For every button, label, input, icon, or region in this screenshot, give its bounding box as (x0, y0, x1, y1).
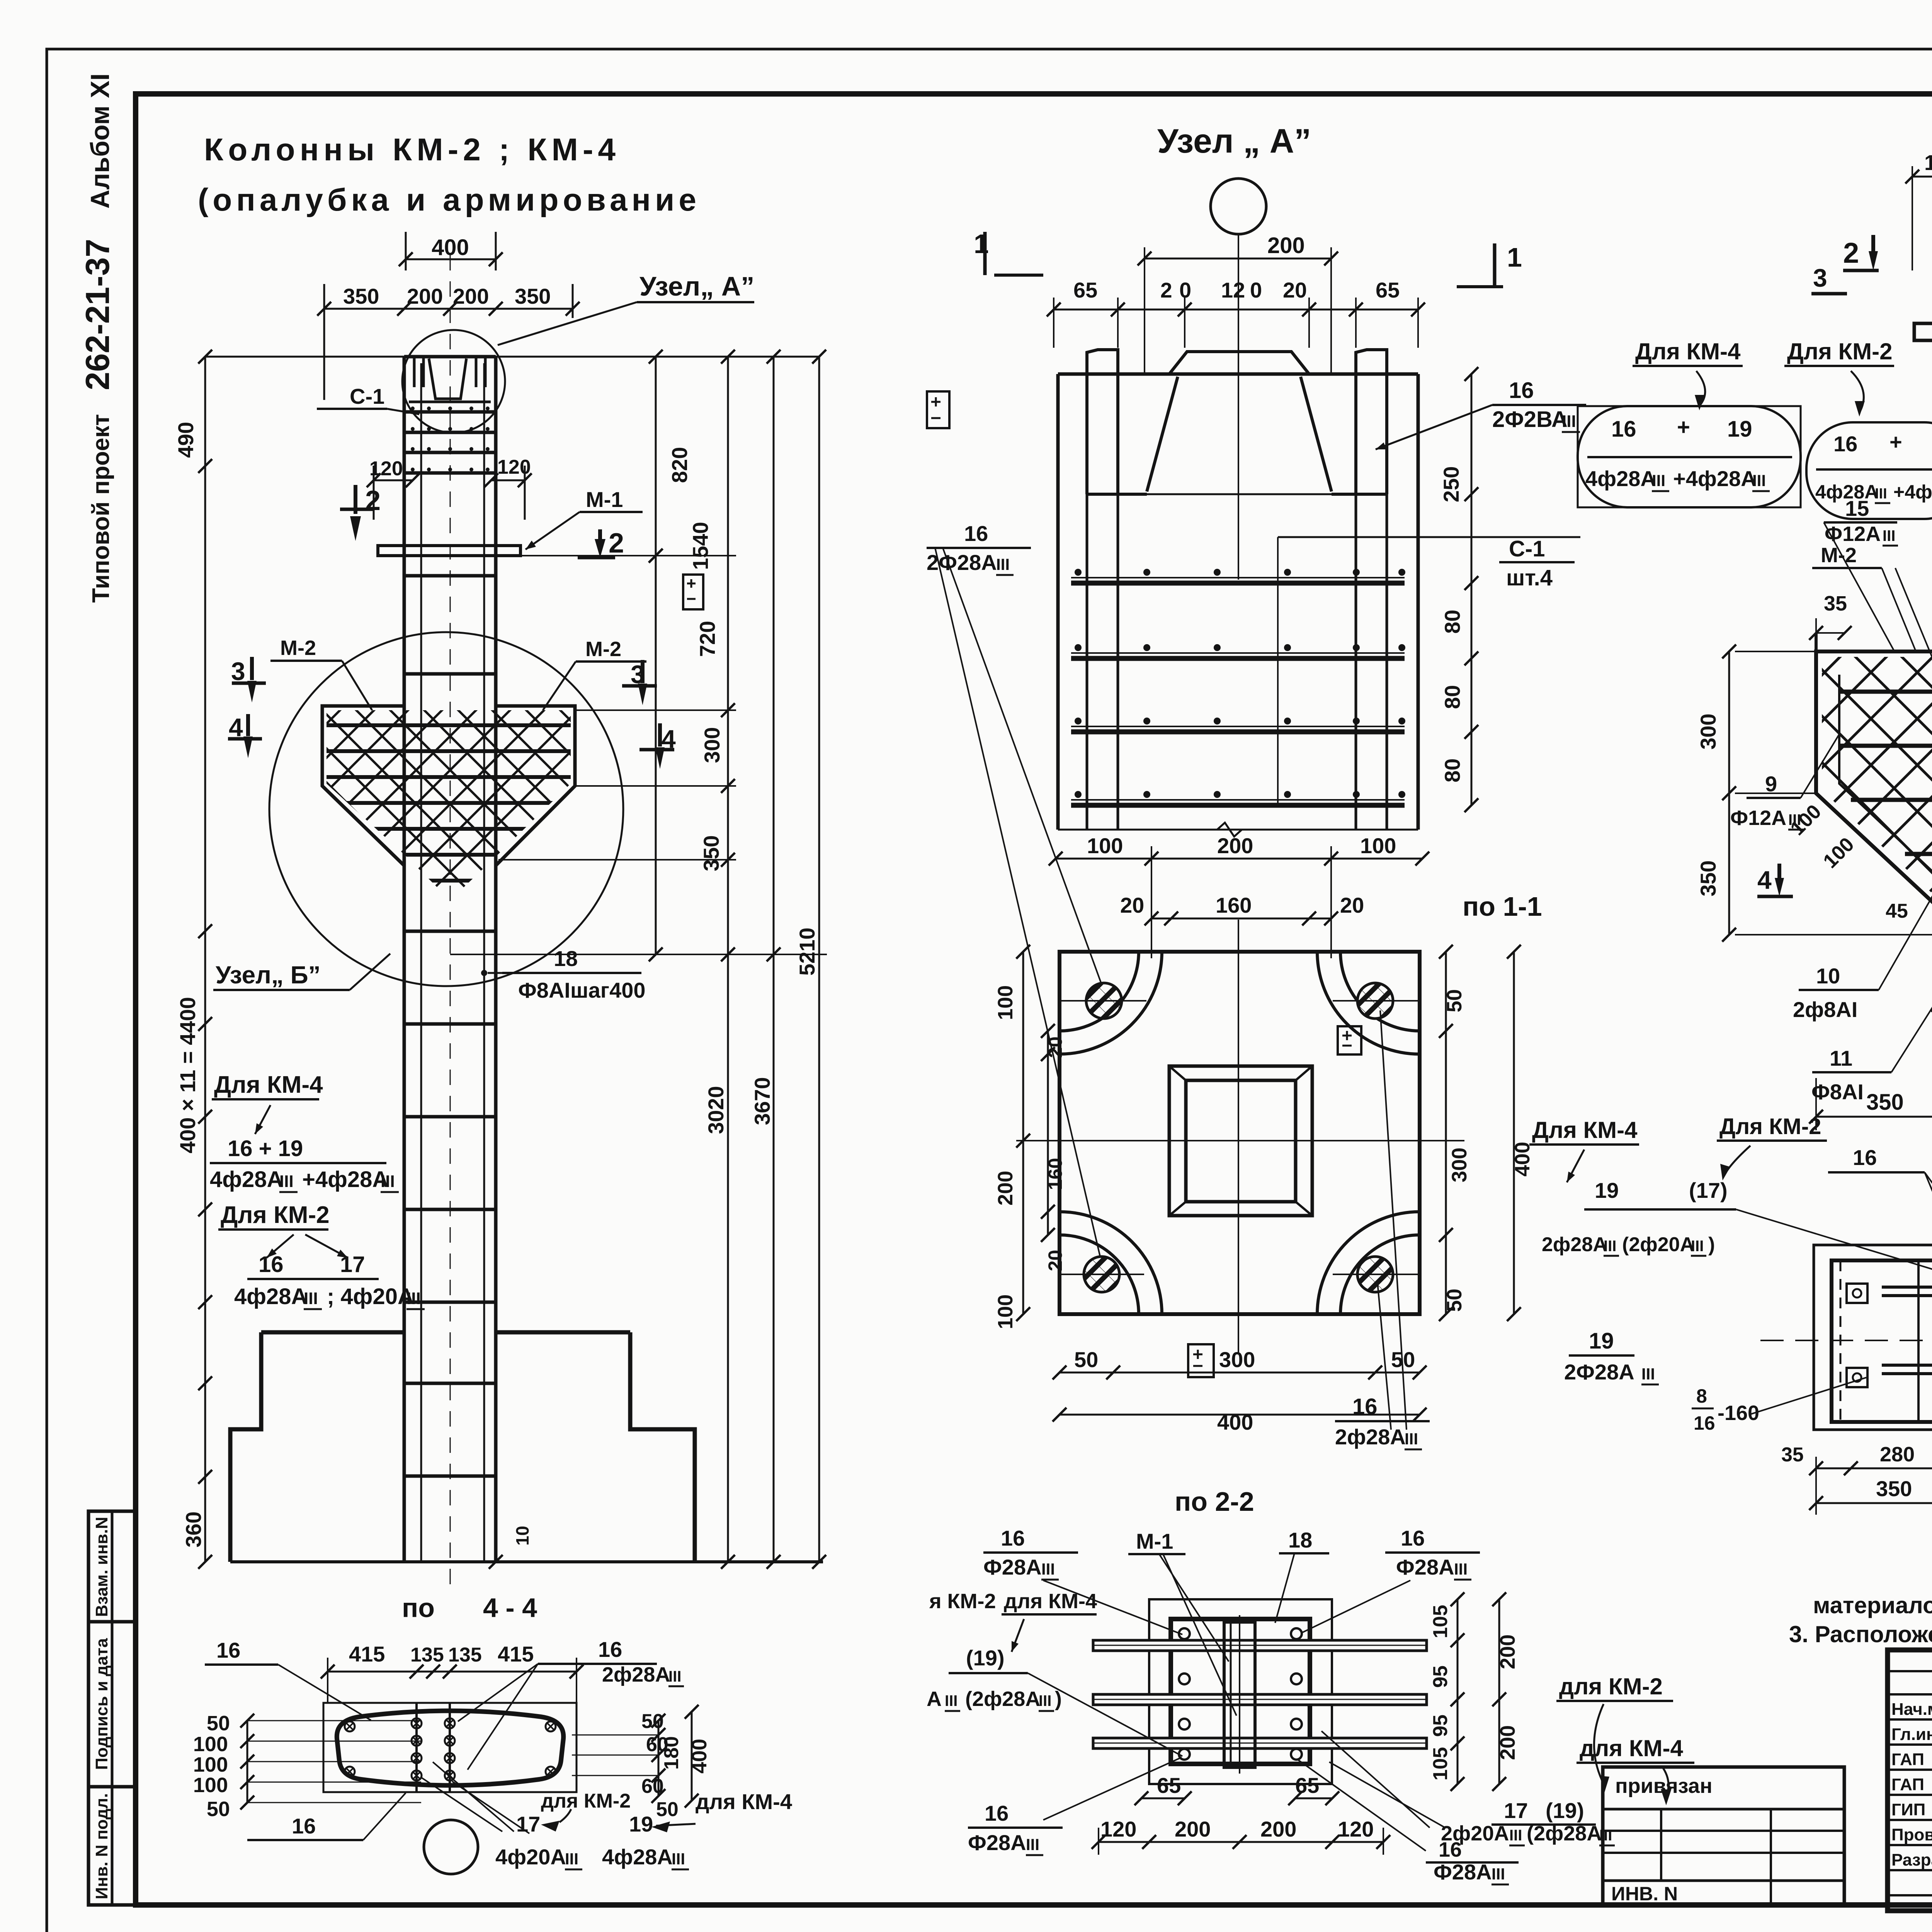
svg-text:490: 490 (173, 422, 198, 458)
svg-text:для КМ-2: для КМ-2 (1559, 1673, 1663, 1699)
svg-text:16: 16 (259, 1252, 284, 1277)
svg-text:III: III (1039, 1692, 1051, 1709)
uzel A circle (left) (402, 330, 505, 433)
label C-1 sht.4 (1278, 536, 1580, 538)
top cap profile (404, 355, 496, 359)
svg-text:шт.4: шт.4 (1506, 565, 1553, 590)
shaft rebar verticals (1086, 494, 1088, 830)
svg-text:III: III (668, 1668, 681, 1685)
section mark 3 (left, uzelB) (1811, 292, 1847, 296)
svg-text:200: 200 (1496, 1634, 1519, 1669)
column longitudinal rebar (420, 363, 422, 1562)
svg-text:200: 200 (1260, 1817, 1296, 1841)
svg-text:120: 120 (1100, 1817, 1136, 1841)
svg-text:50: 50 (656, 1798, 679, 1821)
bottom dims 350 200 200 350 (uzelB) (1816, 1116, 1932, 1118)
po33 outer rect (1814, 1245, 1932, 1430)
title block rows (left part) (1888, 1670, 1932, 1672)
svg-text:III: III (1875, 486, 1887, 502)
svg-text:(19): (19) (966, 1646, 1005, 1670)
svg-text:Ф12А: Ф12А (1730, 806, 1786, 830)
svg-text:Ф8АI: Ф8АI (1811, 1080, 1864, 1104)
svg-text:35: 35 (1781, 1444, 1804, 1466)
svg-text:250: 250 (1439, 466, 1463, 502)
svg-text:2ф28А: 2ф28А (1542, 1233, 1607, 1256)
svg-text:100: 100 (1360, 833, 1396, 858)
column shaft outer edges (403, 357, 406, 1562)
dim 400 top (406, 259, 496, 260)
svg-text:Для КМ-4: Для КМ-4 (214, 1071, 323, 1098)
svg-text:Для КМ-2: Для КМ-2 (1787, 338, 1893, 364)
svg-text:М-2: М-2 (280, 636, 316, 660)
svg-text:+4ф28А: +4ф28А (1673, 466, 1757, 491)
top dims 100 200 100 (1056, 858, 1422, 860)
svg-text:Инв. N подл.: Инв. N подл. (92, 1793, 111, 1900)
svg-text:1540: 1540 (688, 522, 713, 570)
svg-text:820: 820 (667, 447, 692, 483)
formwork cap profile (1087, 350, 1118, 374)
svg-text:3: 3 (231, 657, 245, 685)
svg-text:350: 350 (515, 284, 551, 308)
svg-text:3. Расположение колонн на план: 3. Расположение колонн на плане см. на ч… (1789, 1621, 1932, 1647)
svg-text:135: 135 (410, 1644, 444, 1666)
svg-text:Подпись и дата: Подпись и дата (92, 1638, 111, 1770)
corner rebar circles (1179, 1628, 1190, 1639)
right dim line (1471, 374, 1473, 805)
rebar circles po44 (412, 1718, 422, 1728)
svg-text:+: + (1889, 430, 1902, 454)
svg-text:20: 20 (1044, 1036, 1066, 1058)
left dim line (overall) (204, 357, 206, 1562)
svg-text:18: 18 (554, 946, 578, 971)
svg-text:Нач.мост.: Нач.мост. (1891, 1700, 1932, 1719)
uzel B capital (left fig) (322, 706, 404, 866)
svg-text:3: 3 (631, 660, 645, 689)
section mark 2 right (578, 556, 615, 560)
svg-text:+4ф28А: +4ф28А (302, 1167, 388, 1192)
svg-text:3670: 3670 (750, 1077, 774, 1125)
svg-text:350: 350 (343, 284, 379, 308)
capital inner offset (1839, 675, 1932, 912)
svg-text:я КМ-2: я КМ-2 (929, 1590, 996, 1613)
svg-text:III: III (945, 1692, 957, 1709)
svg-text:Ф28А: Ф28А (1396, 1555, 1454, 1579)
svg-text:III: III (1041, 1560, 1055, 1578)
column axis centerline (450, 255, 451, 1592)
svg-text:1: 1 (1507, 242, 1522, 272)
po33 middle bars (1882, 1286, 1932, 1289)
privyazan table (1603, 1767, 1844, 1904)
svg-text:4: 4 (662, 724, 676, 753)
svg-text:400: 400 (1511, 1142, 1534, 1177)
svg-text:17: 17 (340, 1252, 365, 1277)
svg-text:Узел„ А”: Узел„ А” (639, 271, 754, 301)
svg-text:12: 12 (1221, 278, 1245, 302)
svg-text:Альбом XI: Альбом XI (85, 73, 115, 209)
svg-text:50: 50 (641, 1710, 664, 1733)
svg-text:200: 200 (1267, 233, 1305, 258)
svg-text:(опалубка и армирование: (опалубка и армирование (198, 182, 696, 218)
svg-text:4ф28А: 4ф28А (602, 1845, 673, 1869)
svg-text:200: 200 (407, 284, 443, 308)
svg-text:4ф28А: 4ф28А (1585, 466, 1656, 491)
top dims 415 135 135 415 (328, 1671, 577, 1673)
svg-text:11: 11 (1830, 1046, 1852, 1070)
section mark 4 right (639, 748, 674, 752)
svg-text:III: III (1641, 1365, 1655, 1383)
svg-text:4: 4 (229, 713, 243, 742)
svg-text:19: 19 (1589, 1328, 1614, 1354)
section mark 4 left (228, 737, 262, 741)
svg-text:III: III (1454, 1560, 1468, 1578)
shaft stirrups (404, 574, 496, 578)
svg-text:III: III (1405, 1430, 1418, 1448)
svg-text:М-2: М-2 (1821, 544, 1857, 567)
svg-text:ГИП: ГИП (1891, 1800, 1925, 1819)
svg-text:16: 16 (1001, 1526, 1025, 1550)
svg-text:350: 350 (1876, 1476, 1912, 1501)
svg-text:20: 20 (1120, 893, 1144, 917)
svg-text:100: 100 (193, 1753, 228, 1776)
svg-text:3: 3 (1813, 264, 1827, 292)
svg-text:120: 120 (1338, 1817, 1374, 1841)
svg-text:для КМ-2: для КМ-2 (541, 1790, 631, 1812)
svg-text:(2ф20А: (2ф20А (1622, 1233, 1694, 1256)
svg-text:400: 400 (432, 235, 469, 260)
svg-text:(2ф28А: (2ф28А (1527, 1822, 1602, 1845)
svg-text:): ) (1708, 1233, 1715, 1256)
svg-text:10: 10 (512, 1526, 532, 1546)
svg-text:): ) (1055, 1687, 1062, 1711)
po33 bottom dims row1 (1816, 1468, 1932, 1469)
corner fillet arcs BL (1060, 1235, 1139, 1314)
svg-text:для КМ-4: для КМ-4 (1580, 1735, 1683, 1761)
svg-text:М-1: М-1 (1136, 1529, 1173, 1553)
svg-text:105: 105 (1429, 1747, 1452, 1781)
svg-text:Ф8АIшаг400: Ф8АIшаг400 (518, 978, 646, 1002)
svg-text:2Ф2ВА: 2Ф2ВА (1492, 407, 1568, 432)
svg-text:65: 65 (1073, 278, 1097, 302)
plusminus box near uzelA (927, 391, 949, 428)
svg-text:Разраб: Разраб (1891, 1850, 1932, 1869)
svg-text:65: 65 (1157, 1773, 1181, 1798)
svg-text:16: 16 (292, 1814, 316, 1838)
svg-text:III: III (1691, 1238, 1704, 1255)
dim 200 (top) (1145, 258, 1331, 260)
central plate (1224, 1622, 1255, 1767)
svg-text:135: 135 (448, 1644, 482, 1666)
svg-text:19: 19 (1727, 417, 1752, 442)
M-1 embed plate (378, 546, 520, 556)
dim 350 200 200 350 (324, 308, 573, 310)
svg-text:300: 300 (1696, 714, 1720, 750)
M-1 plate (uzelB) (1914, 323, 1932, 340)
C-1 mesh rows (406, 410, 495, 414)
svg-text:50: 50 (1443, 989, 1466, 1012)
svg-text:Узел„ Б”: Узел„ Б” (216, 961, 321, 989)
svg-text:2: 2 (1843, 237, 1859, 269)
svg-text:120: 120 (1924, 150, 1932, 175)
left dims (1022, 952, 1024, 1314)
svg-text:350: 350 (1696, 861, 1720, 896)
bottom dims 120 200 200 120 (1099, 1841, 1383, 1843)
svg-text:18: 18 (1288, 1528, 1312, 1552)
svg-text:III: III (672, 1850, 685, 1868)
svg-text:16: 16 (1509, 378, 1534, 403)
svg-text:(19): (19) (1546, 1798, 1584, 1823)
svg-text:16: 16 (1439, 1838, 1462, 1861)
outer square (1060, 952, 1420, 1314)
left dim stack 50 100 100 100 50 (247, 1721, 248, 1803)
svg-text:III: III (279, 1172, 294, 1191)
rebar rows with dots (1071, 581, 1405, 586)
svg-text:15: 15 (1845, 496, 1869, 520)
svg-text:16: 16 (598, 1637, 622, 1662)
svg-text:III: III (996, 555, 1010, 573)
svg-text:100: 100 (994, 1294, 1017, 1329)
svg-text:М-2: М-2 (585, 638, 621, 661)
svg-text:ГАП: ГАП (1891, 1775, 1924, 1794)
svg-text:Гл.инж.м: Гл.инж.м (1891, 1725, 1932, 1744)
svg-text:20: 20 (1283, 278, 1307, 302)
svg-text:Типовой проект: Типовой проект (88, 414, 114, 603)
svg-text:ГАП: ГАП (1891, 1750, 1924, 1769)
svg-text:(17): (17) (1689, 1178, 1728, 1202)
svg-text:+: + (1677, 415, 1690, 440)
marker circle po44 (424, 1820, 478, 1874)
svg-text:Ф28А: Ф28А (1434, 1860, 1492, 1884)
svg-text:180: 180 (660, 1736, 683, 1770)
sidebar table (88, 1511, 136, 1905)
svg-text:4ф28А: 4ф28А (210, 1167, 283, 1192)
middle verticals (415, 1703, 418, 1792)
svg-text:2ф8АI: 2ф8АI (1793, 997, 1857, 1022)
svg-text:(2ф28А: (2ф28А (965, 1687, 1040, 1711)
svg-text:16: 16 (964, 521, 988, 546)
po33 bottom dims row2 (1816, 1502, 1932, 1504)
svg-text:Колонны КМ-2 ; КМ-4: Колонны КМ-2 ; КМ-4 (204, 132, 616, 167)
svg-text:М-1: М-1 (586, 487, 623, 512)
svg-text:50: 50 (207, 1712, 230, 1735)
svg-text:по 1-1: по 1-1 (1463, 891, 1542, 922)
svg-text:III: III (1652, 471, 1665, 490)
leaders from bottom labels to circles (421, 1777, 502, 1832)
marker circle (1211, 179, 1266, 234)
foundation (230, 1332, 261, 1562)
svg-text:16: 16 (985, 1801, 1009, 1825)
svg-text:16: 16 (1401, 1526, 1425, 1550)
oval KM-2 (1806, 422, 1932, 519)
svg-text:16: 16 (1853, 1145, 1877, 1170)
svg-text:350: 350 (699, 835, 723, 871)
svg-text:0: 0 (1250, 278, 1262, 302)
svg-text:95: 95 (1429, 1714, 1452, 1737)
break line bottom (1058, 829, 1418, 831)
svg-text:III: III (1509, 1827, 1522, 1844)
svg-text:5210: 5210 (795, 927, 819, 976)
svg-text:120: 120 (497, 456, 531, 478)
capital outline (uzelB) (1816, 651, 1932, 935)
bottom dims 65 65 (1141, 1798, 1185, 1799)
corner fillet arcs TR (1340, 952, 1420, 1031)
svg-text:105: 105 (1429, 1605, 1452, 1638)
svg-text:200: 200 (453, 284, 489, 308)
svg-text:60: 60 (641, 1775, 664, 1798)
plusminus box right of po11 (1338, 1026, 1361, 1054)
svg-text:4 - 4: 4 - 4 (483, 1593, 537, 1623)
svg-text:720: 720 (695, 621, 719, 657)
svg-text:45: 45 (1886, 900, 1908, 922)
outer thin rect (323, 1703, 577, 1792)
svg-text:65: 65 (1295, 1773, 1319, 1798)
section mark 3 right (622, 684, 657, 688)
svg-text:III: III (304, 1289, 318, 1308)
svg-text:16: 16 (1694, 1412, 1715, 1434)
corner fillet arcs TL (1060, 952, 1139, 1031)
oval KM-4 (1578, 406, 1801, 507)
right dim lines (655, 357, 657, 954)
svg-text:65: 65 (1376, 278, 1400, 302)
centerlines (1016, 1140, 1464, 1141)
svg-text:8: 8 (1696, 1385, 1707, 1407)
right dims 105 95 95 105 / 200 200 (1457, 1599, 1459, 1784)
svg-text:4: 4 (1757, 866, 1772, 894)
svg-text:привязан: привязан (1615, 1774, 1713, 1798)
capital horizontal bars (1839, 690, 1932, 694)
svg-text:III: III (381, 1172, 395, 1191)
svg-text:95: 95 (1429, 1665, 1452, 1688)
svg-text:415: 415 (498, 1642, 534, 1666)
svg-text:2: 2 (365, 485, 381, 516)
svg-text:16: 16 (216, 1638, 240, 1662)
svg-text:2: 2 (609, 528, 624, 559)
po33 centerlines (1760, 1340, 1932, 1341)
svg-text:50: 50 (1074, 1347, 1098, 1372)
plusminus box left fig (683, 575, 703, 609)
svg-text:для КМ-4: для КМ-4 (696, 1789, 792, 1814)
section mark 2 left (340, 508, 373, 511)
svg-text:280: 280 (1880, 1443, 1915, 1466)
center square recess (1169, 1066, 1312, 1216)
svg-text:200: 200 (1496, 1725, 1519, 1760)
svg-text:Взам. инв.N: Взам. инв.N (92, 1517, 111, 1617)
svg-text:Провер.: Провер. (1891, 1825, 1932, 1844)
svg-text:2: 2 (1160, 278, 1172, 302)
svg-text:III: III (1752, 471, 1766, 490)
section mark 2 left (uzelB) (1843, 269, 1879, 272)
svg-text:по 2-2: по 2-2 (1175, 1486, 1254, 1517)
svg-text:+4ф20А: +4ф20А (1893, 481, 1932, 503)
top dims 20 160 20 (1151, 918, 1331, 920)
svg-text:20: 20 (1340, 893, 1364, 917)
svg-text:200: 200 (1217, 833, 1253, 858)
svg-text:100: 100 (1087, 833, 1123, 858)
svg-text:Узел „ А”: Узел „ А” (1157, 122, 1311, 160)
big circle uzel B (left) (269, 632, 623, 986)
svg-text:400 × 11 = 4400: 400 × 11 = 4400 (175, 997, 200, 1153)
svg-text:200: 200 (1175, 1817, 1211, 1841)
svg-text:III: III (1492, 1865, 1505, 1883)
svg-text:для КМ-4: для КМ-4 (1004, 1590, 1097, 1613)
svg-text:; 4ф20А: ; 4ф20А (327, 1284, 414, 1309)
svg-text:III: III (1026, 1835, 1039, 1854)
bottom dims 50 300 50 (1060, 1372, 1420, 1374)
inner thick square (1171, 1619, 1310, 1764)
svg-text:Для КМ-2: Для КМ-2 (1719, 1114, 1821, 1139)
svg-text:III: III (1883, 527, 1895, 544)
svg-text:360: 360 (181, 1512, 206, 1548)
plusminus box below po11 (1188, 1344, 1214, 1377)
svg-text:9: 9 (1765, 772, 1777, 796)
section mark 3 left (232, 682, 266, 685)
column top line (205, 356, 819, 358)
outer square (1149, 1599, 1332, 1784)
svg-text:Для КМ-2: Для КМ-2 (221, 1202, 330, 1228)
svg-text:2ф28А: 2ф28А (1335, 1425, 1406, 1449)
svg-text:19: 19 (629, 1812, 653, 1836)
svg-text:16: 16 (1611, 417, 1636, 442)
svg-text:материалов на колонны КМ-2; КМ: материалов на колонны КМ-2; КМ-4 см. на … (1813, 1592, 1932, 1618)
svg-text:19: 19 (1595, 1178, 1619, 1202)
svg-text:20: 20 (1044, 1250, 1066, 1271)
svg-text:100: 100 (994, 985, 1017, 1020)
svg-text:300: 300 (1219, 1347, 1255, 1372)
svg-text:Ф28А: Ф28А (968, 1830, 1026, 1855)
svg-text:80: 80 (1440, 610, 1464, 634)
svg-text:200: 200 (994, 1171, 1017, 1206)
column outline (1056, 374, 1060, 830)
svg-text:80: 80 (1440, 759, 1464, 782)
svg-text:80: 80 (1440, 685, 1464, 709)
svg-text:160: 160 (1044, 1158, 1066, 1190)
svg-text:262-21-37: 262-21-37 (79, 239, 116, 390)
svg-text:50: 50 (1443, 1289, 1466, 1312)
svg-text:4ф28А: 4ф28А (234, 1284, 307, 1309)
svg-text:100: 100 (193, 1733, 228, 1756)
svg-text:300: 300 (1448, 1148, 1471, 1182)
svg-text:16 + 19: 16 + 19 (228, 1136, 303, 1161)
dim 120 200 200 120 (1912, 176, 1932, 178)
svg-text:4ф20А: 4ф20А (495, 1845, 566, 1869)
svg-text:2ф28А: 2ф28А (602, 1663, 670, 1686)
dim 120 120 (374, 480, 413, 481)
svg-text:А: А (927, 1687, 942, 1711)
svg-text:III: III (1562, 412, 1576, 431)
svg-text:С-1: С-1 (1509, 536, 1545, 561)
right dim connectors (520, 555, 736, 556)
TITLE BLOCK (1888, 1650, 1932, 1911)
svg-text:160: 160 (1216, 893, 1252, 917)
svg-text:III: III (406, 1289, 421, 1308)
svg-text:16: 16 (1833, 432, 1857, 456)
svg-text:50: 50 (207, 1798, 230, 1821)
hatched rebar circles (1086, 983, 1122, 1019)
svg-text:10: 10 (1816, 964, 1840, 988)
svg-text:по: по (402, 1593, 435, 1623)
svg-text:ИНВ. N: ИНВ. N (1611, 1883, 1678, 1905)
bottom dim 400 (1060, 1414, 1420, 1416)
right dims (1445, 952, 1447, 1314)
svg-text:III: III (565, 1850, 578, 1868)
svg-text:400: 400 (1217, 1410, 1253, 1434)
right dim stack 50 60 180 60 50 (658, 1721, 660, 1796)
svg-text:Ф12А: Ф12А (1825, 522, 1881, 546)
svg-text:300: 300 (700, 727, 724, 763)
svg-text:С-1: С-1 (350, 384, 384, 408)
oval section outline (337, 1711, 563, 1786)
svg-text:Ф28А: Ф28А (983, 1555, 1042, 1579)
svg-text:17: 17 (1504, 1798, 1528, 1823)
